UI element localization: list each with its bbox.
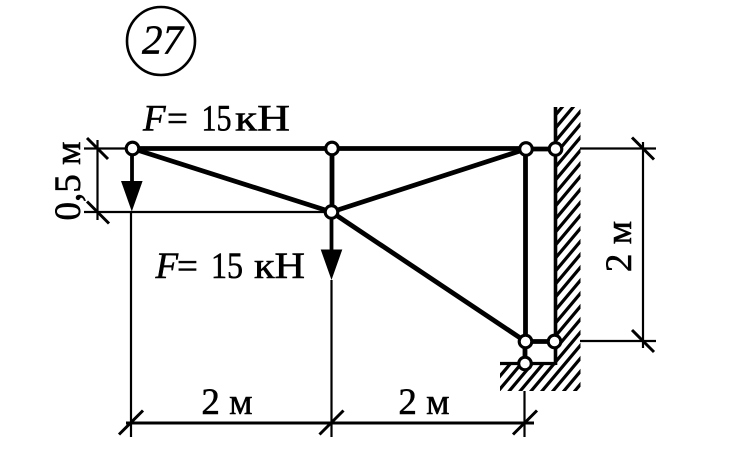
member: top chord A-B-C [133, 146, 527, 151]
extension line left (x=131 down to bottom dimension) [130, 212, 132, 437]
right dimension 2 м : tick bottom [632, 330, 654, 352]
dimension 0,5 м : dimension line [96, 140, 98, 220]
node W2 (wall bottom) [548, 335, 561, 348]
node A (top left) [126, 142, 139, 155]
member: vertical D-E [523, 342, 528, 364]
node C (top right) [520, 143, 533, 156]
svg-text:F=15кН: F=15кН [142, 99, 290, 140]
dimension 0,5 м : extension line top [84, 147, 133, 149]
node B (top middle) [326, 142, 339, 155]
dimension 0,5 м : reference line at middle node level [84, 211, 332, 213]
node E (support) [519, 357, 532, 370]
member: diagonal M-C [332, 149, 527, 212]
wall hatching [495, 1, 586, 476]
support block top edge [500, 362, 556, 365]
node D (bottom right) [519, 335, 532, 348]
extension line middle (x=331 down to bottom dimension) [330, 280, 332, 437]
right dimension 2 м : dimension line [642, 142, 644, 348]
force arrow F1 shaft [130, 152, 134, 186]
svg-text:2 м: 2 м [599, 221, 640, 272]
member: link D to wall node W2 [526, 339, 555, 344]
svg-text:F=15кН: F=15кН [155, 246, 306, 287]
extension line right (x=524 below support block) [523, 391, 525, 437]
member: diagonal A-M [133, 149, 332, 213]
svg-text:27: 27 [142, 17, 185, 63]
svg-text:2 м: 2 м [201, 382, 252, 423]
node M (middle) [325, 206, 338, 219]
task number circle 27 [127, 7, 195, 75]
force arrow F2 head [321, 250, 343, 281]
dimension 0,5 м : tick bottom [87, 202, 109, 224]
member: vertical C-D [523, 149, 528, 342]
right dimension 2 м : extension line top [580, 147, 656, 149]
dimension 0,5 м : tick top [87, 138, 108, 159]
member: vertical B-M [330, 149, 335, 213]
right dimension 2 м : extension line bottom [580, 340, 656, 342]
force arrow F1 head [121, 181, 143, 212]
force arrow F2 shaft [330, 215, 334, 255]
wall face line [554, 107, 558, 365]
bottom dimension tick right [513, 411, 537, 435]
member: link C to wall node W1 [526, 147, 556, 152]
right dimension 2 м : tick top [632, 138, 654, 160]
bottom dimension tick middle [320, 411, 344, 435]
member: diagonal M-D [332, 212, 526, 342]
bottom dimension line [126, 422, 534, 425]
svg-text:2 м: 2 м [398, 382, 449, 423]
bottom dimension tick left [119, 411, 143, 435]
node W1 (wall top) [549, 143, 562, 156]
svg-text:0,5 м: 0,5 м [48, 142, 89, 221]
